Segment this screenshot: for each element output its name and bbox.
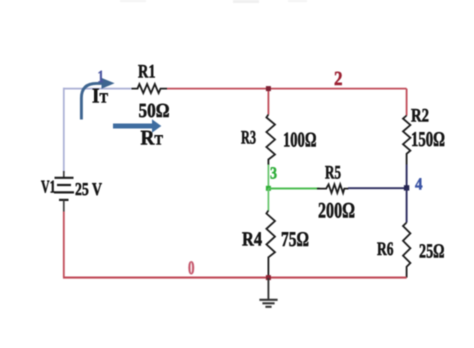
resistor R1 (132, 84, 168, 93)
wire net4: R2 lead down to node 4 (406, 165, 408, 189)
svg-text:150Ω: 150Ω (411, 127, 445, 151)
RT arrow (thick) (113, 124, 152, 129)
node 4 junction dot (404, 185, 409, 190)
svg-text:R2: R2 (411, 105, 429, 126)
svg-text:3: 3 (270, 163, 277, 182)
svg-text:V1: V1 (41, 177, 56, 197)
svg-text:R6: R6 (377, 239, 394, 260)
junction dot net0/R4 (266, 275, 271, 280)
svg-text:100Ω: 100Ω (283, 127, 317, 151)
wire net1: left vertical segment (63, 88, 65, 173)
wire net2: top horizontal segment (167, 88, 407, 90)
wire net2: drop to R3 (267, 89, 269, 115)
svg-text:R4: R4 (242, 229, 262, 251)
svg-text:25Ω: 25Ω (419, 240, 445, 262)
wire net3: below node 3 to R4 (267, 188, 269, 210)
svg-text:25 V: 25 V (75, 179, 102, 199)
wire net3: R3 lead down to node 3 (267, 165, 269, 189)
node 3 junction dot (266, 186, 271, 191)
wire net2: right vertical drop to R2 (406, 89, 408, 116)
svg-text:0: 0 (188, 258, 195, 279)
wire net1: top-left horizontal segment (63, 88, 132, 90)
wire net0: bottom horizontal (63, 277, 407, 279)
resistor R6 (403, 223, 410, 278)
svg-text:200Ω: 200Ω (318, 198, 355, 223)
svg-text:50Ω: 50Ω (139, 100, 170, 122)
wire net0: left vertical below battery (63, 212, 65, 278)
resistor R4 (266, 211, 275, 278)
svg-text:4: 4 (415, 174, 423, 193)
svg-text:R1: R1 (138, 61, 156, 82)
current arrow IT (curved) (81, 83, 101, 119)
svg-text:R5: R5 (325, 162, 341, 183)
svg-text:IT: IT (92, 84, 109, 108)
ground symbol (259, 278, 277, 307)
resistor R3 (266, 115, 275, 166)
battery V1 plates (54, 178, 74, 200)
svg-text:R3: R3 (241, 127, 256, 148)
wire net3: horizontal to R5 (268, 188, 319, 190)
wire net4: R5 to node 4 (348, 187, 407, 189)
junction dot net2/R3 (266, 86, 271, 91)
battery V1 bottom lead (63, 200, 65, 212)
resistor R5 (317, 184, 349, 193)
svg-text:2: 2 (334, 68, 343, 90)
battery V1 top lead (63, 171, 65, 178)
svg-text:75Ω: 75Ω (281, 227, 309, 251)
resistor R2 (403, 116, 410, 165)
svg-text:RT: RT (141, 126, 164, 150)
wire net4: below node 4 to R6 (406, 188, 408, 223)
